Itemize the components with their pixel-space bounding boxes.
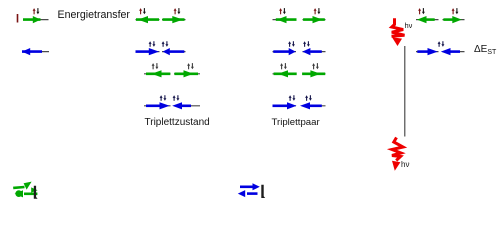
svg-text:hν: hν [405,21,413,30]
svg-text:hν: hν [401,160,409,169]
svg-text:Triplettpaar: Triplettpaar [272,117,321,128]
svg-text:Triplettzustand: Triplettzustand [145,117,210,128]
svg-text:Energietransfer: Energietransfer [58,9,131,21]
svg-text:ΔEST: ΔEST [474,44,497,56]
